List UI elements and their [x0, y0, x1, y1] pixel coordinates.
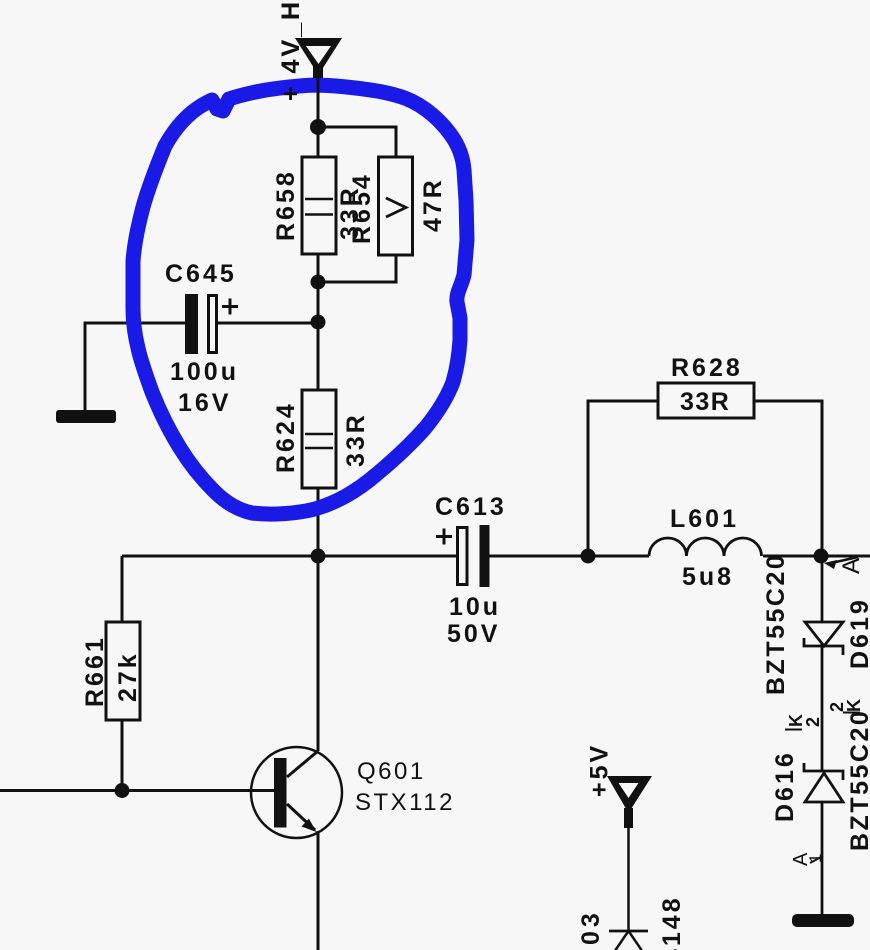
wire D616 to ground	[821, 802, 824, 914]
transistor Q601	[251, 747, 455, 838]
svg-text:BZT55C20: BZT55C20	[846, 709, 870, 851]
wire J6 up to R628	[588, 401, 658, 556]
svg-text:R658: R658	[272, 169, 300, 241]
svg-text:50V: 50V	[447, 620, 500, 648]
diode D603	[577, 895, 686, 950]
capacitor C613	[435, 493, 507, 648]
svg-text:4148: 4148	[658, 895, 686, 950]
svg-text:2: 2	[803, 717, 823, 727]
svg-text:+5V: +5V	[586, 743, 614, 797]
svg-text:47R: 47R	[419, 177, 447, 232]
svg-text:D603: D603	[577, 909, 605, 950]
svg-text:+ 4V_H: + 4V_H	[277, 0, 305, 101]
node J6	[581, 549, 596, 564]
svg-text:BZT55C20: BZT55C20	[762, 553, 790, 695]
wire C613 to node J6	[490, 555, 589, 558]
pin labels K2 (D619)	[827, 699, 864, 713]
zener diode D616	[771, 709, 870, 851]
svg-text:16V: 16V	[178, 389, 231, 417]
wire R658 bottom to node J2	[317, 254, 320, 282]
svg-text:D616: D616	[771, 750, 799, 822]
node J7 / node A	[814, 549, 829, 564]
wire C645 to ground	[85, 323, 185, 410]
wire node A down to D619	[821, 556, 824, 646]
svg-text:Q601: Q601	[357, 758, 426, 785]
power +4V_H	[277, 0, 342, 101]
svg-text:33R: 33R	[680, 388, 730, 416]
emitter wire	[317, 831, 320, 950]
wire inductor to node J7	[763, 555, 870, 558]
wire R624 to node J4	[317, 488, 320, 556]
wire J2 to J3	[317, 282, 320, 322]
collector wire	[317, 556, 320, 751]
redraw power stem, wire and label over the blue loop	[277, 0, 326, 135]
wire between diodes	[821, 646, 824, 771]
svg-text:R628: R628	[671, 354, 743, 382]
wire right branch bottom to J2	[318, 255, 396, 282]
svg-text:R624: R624	[272, 401, 300, 473]
svg-text:33R: 33R	[342, 412, 370, 467]
wire +5V to D603	[627, 828, 630, 931]
svg-text:C645: C645	[165, 260, 237, 288]
wire J1 to right branch top	[318, 127, 396, 157]
resistor R628	[658, 354, 754, 418]
wire J1 to R658	[317, 127, 320, 157]
svg-text:R661: R661	[81, 635, 109, 707]
resistor R661	[81, 622, 142, 720]
svg-text:10u: 10u	[449, 593, 501, 621]
pin label A1 (D616)	[790, 852, 825, 866]
base wire from left edge	[0, 789, 275, 792]
wire J3 to R624	[317, 322, 320, 390]
node J2	[311, 275, 326, 290]
capacitor C645	[165, 260, 318, 417]
svg-text:R654: R654	[348, 172, 376, 244]
svg-text:27k: 27k	[114, 651, 142, 702]
resistor R654	[348, 157, 413, 255]
resistor R658	[272, 157, 336, 254]
wire supply to node J1	[317, 75, 320, 127]
blue annotation loop	[133, 85, 467, 514]
node J5	[115, 783, 130, 798]
net label A with arrow	[824, 557, 865, 574]
node J1	[311, 120, 326, 135]
wire J6 to inductor	[588, 555, 649, 558]
ground (right)	[792, 914, 854, 927]
main horizontal wire	[122, 555, 456, 558]
svg-text:A: A	[838, 558, 865, 574]
inductor L601	[649, 505, 762, 591]
zener diode D619	[762, 553, 870, 695]
svg-text:STX112: STX112	[355, 789, 455, 816]
svg-text:L601: L601	[670, 505, 739, 533]
wire R628 down to node J7	[754, 401, 822, 556]
wire R661 to node J5	[121, 720, 124, 791]
power +5V	[586, 743, 653, 828]
resistor R624	[272, 390, 336, 488]
svg-text:5u8: 5u8	[682, 563, 734, 591]
wire corner down to R661	[121, 556, 124, 622]
svg-text:C613: C613	[435, 493, 507, 521]
node J4	[311, 549, 326, 564]
pin labels K2 (D616)	[785, 714, 823, 730]
node J3	[311, 315, 326, 330]
svg-text:D619: D619	[846, 597, 870, 669]
svg-text:100u: 100u	[170, 358, 239, 386]
ground (left)	[56, 410, 116, 423]
